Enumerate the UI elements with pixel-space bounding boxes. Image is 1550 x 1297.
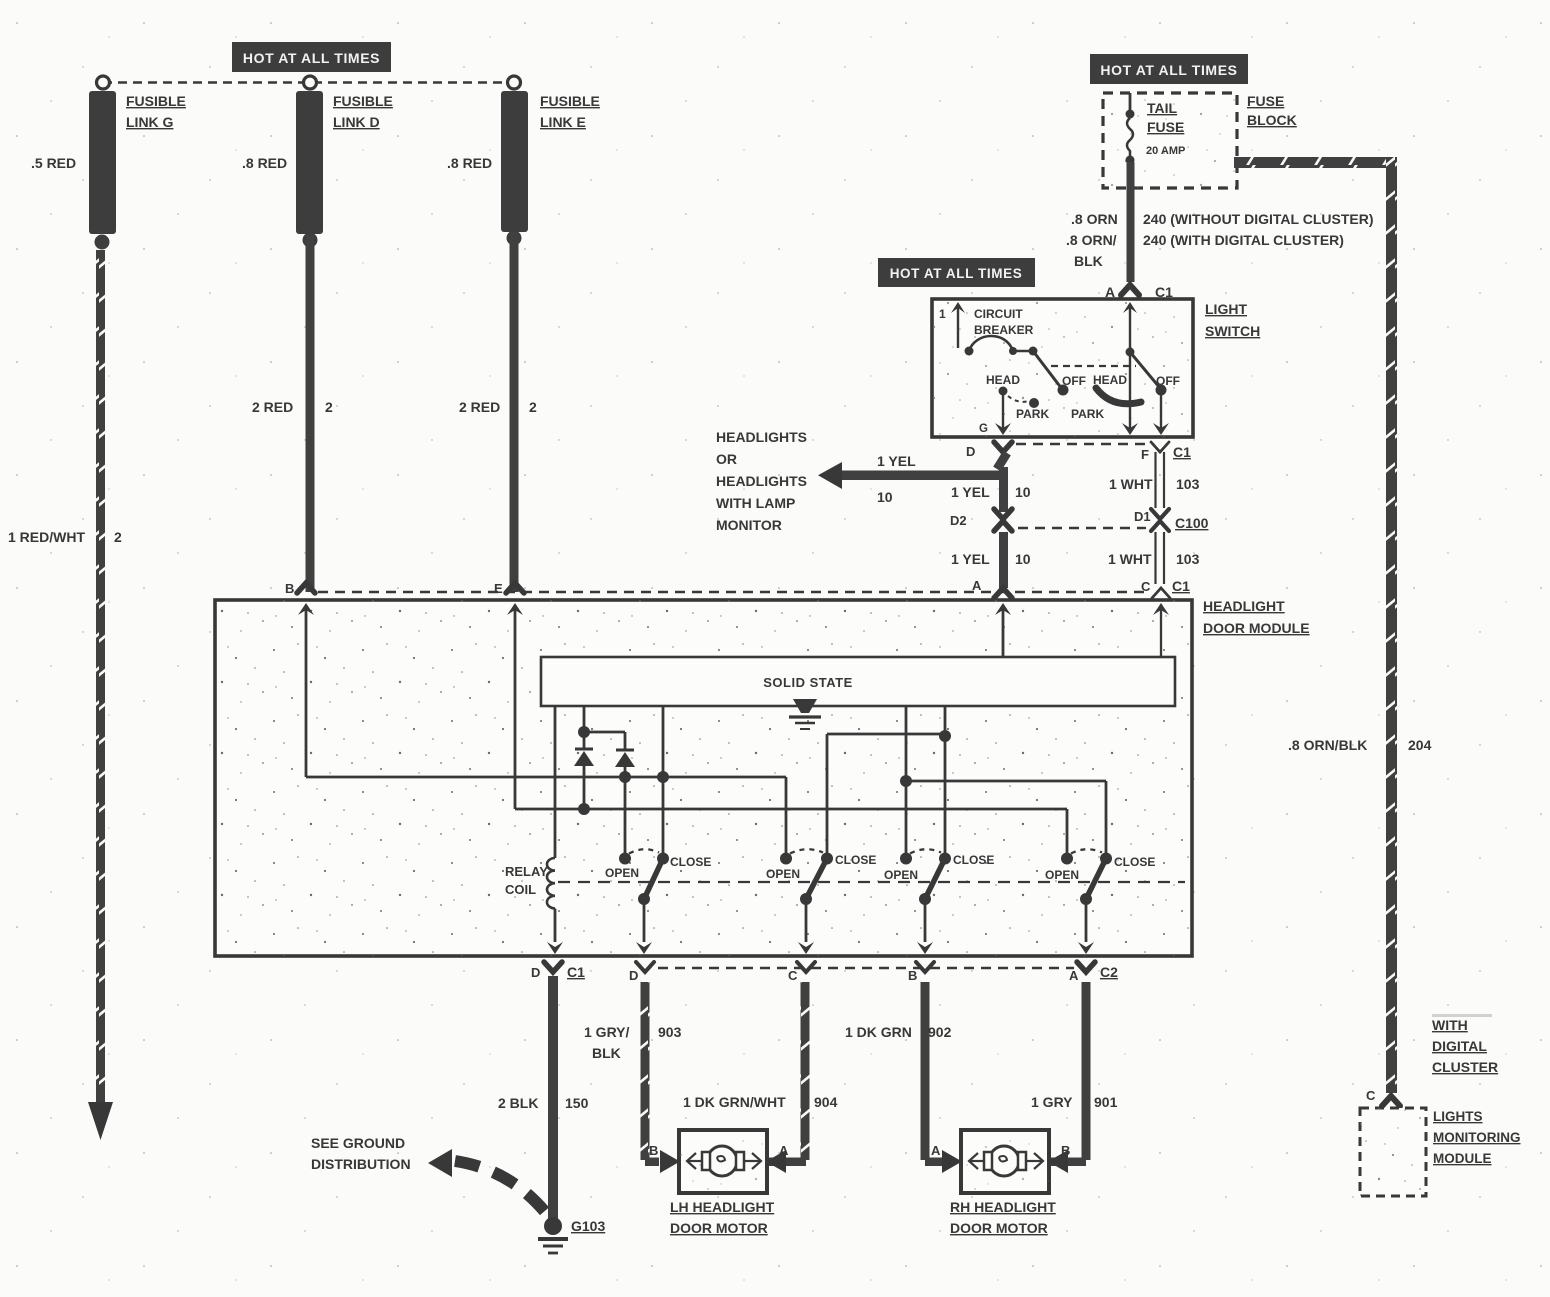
label HOT AT ALL TIMES (left)	[232, 42, 391, 72]
svg-text:HEADLIGHTS: HEADLIGHTS	[716, 473, 807, 489]
wire module C to solid state	[1153, 603, 1169, 657]
svg-text:D1: D1	[1134, 509, 1151, 524]
svg-text:HOT AT ALL TIMES: HOT AT ALL TIMES	[890, 266, 1023, 281]
switch lever swoosh HEAD-PARK	[1096, 388, 1141, 404]
label CIRCUIT BREAKER	[974, 307, 1034, 337]
wire solid state to switch3 CLOSE (with branch)	[944, 706, 947, 855]
svg-text:240 (WITHOUT DIGITAL CLUSTER): 240 (WITHOUT DIGITAL CLUSTER)	[1143, 211, 1373, 227]
svg-text:G: G	[979, 423, 988, 435]
wire bus A (B input to switch2 OPEN)	[306, 777, 786, 856]
label OPEN CLOSE (S3)	[884, 853, 994, 882]
svg-text:103: 103	[1176, 551, 1200, 567]
wire 1 DK GRN (B to RH motor A)	[921, 982, 963, 1173]
wire 1 YEL horizontal to headlights	[818, 462, 1007, 489]
wire solid state to switch1 CLOSE	[662, 706, 665, 855]
switch S4 OPEN contact	[1061, 853, 1073, 865]
connector A C1 (light switch input)	[1105, 284, 1173, 300]
label SEE GROUND DISTRIBUTION	[311, 1135, 411, 1172]
svg-text:10: 10	[1015, 551, 1031, 567]
wire module A to solid state	[995, 603, 1011, 657]
svg-text:1 WHT: 1 WHT	[1109, 476, 1153, 492]
label .8 ORN/BLK 240 (WITH DIGITAL CLUSTER)	[1066, 232, 1344, 269]
switch S3 OPEN contact	[900, 853, 912, 865]
label 1 GRY/ BLK 903	[584, 1024, 682, 1061]
svg-text:CLUSTER: CLUSTER	[1432, 1059, 1498, 1075]
connector B (module top)	[285, 581, 315, 596]
node terminal ring 2	[304, 76, 317, 89]
label 2 RED 2 (right)	[459, 399, 537, 415]
svg-text:LIGHT: LIGHT	[1205, 301, 1247, 317]
wire module E to bus B	[507, 603, 523, 809]
wire 1 WHT (F to C100) double line	[1156, 452, 1165, 508]
wire .8 ORN fuse output (down to light switch)	[1127, 162, 1135, 282]
svg-text:C100: C100	[1175, 515, 1209, 531]
svg-text:D2: D2	[950, 513, 967, 528]
LH headlight door motor	[679, 1130, 767, 1193]
diode CR2	[615, 750, 635, 775]
label .8 ORN 240 (WITHOUT DIGITAL CLUSTER)	[1071, 211, 1373, 227]
svg-text:904: 904	[814, 1094, 838, 1110]
label FUSIBLE LINK D	[333, 93, 393, 130]
wire dashed connector face D2-C100	[1018, 527, 1146, 529]
label HEADLIGHT DOOR MODULE	[1203, 598, 1310, 636]
svg-text:DIGITAL: DIGITAL	[1432, 1038, 1487, 1054]
connector D (module bottom, LH open)	[629, 962, 654, 983]
wire module B to bus A	[298, 603, 314, 777]
svg-text:OPEN: OPEN	[605, 866, 639, 880]
svg-text:BREAKER: BREAKER	[974, 323, 1034, 337]
fuse block dashed box	[1103, 93, 1237, 188]
label OPEN CLOSE (S1)	[605, 855, 711, 880]
label 1 WHT 103 (lower)	[1108, 551, 1200, 567]
label 1 DK GRN 902	[845, 1024, 952, 1040]
svg-text:1 YEL: 1 YEL	[951, 484, 990, 500]
svg-text:1 YEL: 1 YEL	[877, 453, 916, 469]
label LIGHTS MONITORING MODULE	[1433, 1109, 1521, 1166]
svg-text:A: A	[931, 1143, 941, 1158]
svg-text:103: 103	[1176, 476, 1200, 492]
svg-text:MONITORING: MONITORING	[1433, 1130, 1521, 1145]
wire dashed detent (light switch)	[1051, 365, 1136, 367]
svg-text:WITH LAMP: WITH LAMP	[716, 495, 795, 511]
ground G103	[538, 1217, 568, 1253]
svg-text:204: 204	[1408, 737, 1432, 753]
label .8 RED (right)	[447, 155, 492, 171]
lights monitoring module dashed box	[1360, 1108, 1426, 1196]
switch S2 CLOSE contact	[821, 853, 833, 865]
label 1 RED/WHT 2	[8, 529, 122, 545]
svg-text:CIRCUIT: CIRCUIT	[974, 307, 1023, 321]
label HEAD / OFF HEAD / OFF	[986, 373, 1180, 388]
wire hot feed dashed bus (top left)	[103, 81, 514, 84]
wire open3-close4 branch	[900, 775, 1106, 857]
svg-text:2 RED: 2 RED	[252, 399, 293, 415]
pin 1 light switch	[939, 302, 965, 348]
svg-text:COIL: COIL	[505, 882, 536, 897]
svg-text:RELAY: RELAY	[505, 864, 548, 879]
svg-text:D: D	[966, 444, 975, 459]
svg-text:SEE GROUND: SEE GROUND	[311, 1135, 405, 1151]
svg-text:BLK: BLK	[592, 1045, 621, 1061]
svg-text:C: C	[788, 968, 798, 983]
label FUSE BLOCK	[1247, 93, 1297, 128]
label OPEN CLOSE (S2)	[766, 853, 876, 881]
node terminal ring 1	[97, 76, 110, 89]
label PARK PARK	[1016, 407, 1104, 421]
label WITH DIGITAL CLUSTER	[1432, 1014, 1498, 1075]
svg-text:CLOSE: CLOSE	[835, 853, 876, 867]
svg-text:OR: OR	[716, 451, 737, 467]
svg-text:.8 ORN/BLK: .8 ORN/BLK	[1288, 737, 1367, 753]
connector D (light switch output)	[966, 442, 1012, 459]
svg-text:2: 2	[114, 529, 122, 545]
svg-text:LH HEADLIGHT: LH HEADLIGHT	[670, 1199, 775, 1215]
svg-text:.8 ORN/: .8 ORN/	[1066, 232, 1117, 248]
label 2 BLK 150	[498, 1095, 589, 1111]
label FUSIBLE LINK E	[540, 93, 600, 130]
svg-text:MODULE: MODULE	[1433, 1151, 1492, 1166]
svg-text:DOOR MOTOR: DOOR MOTOR	[670, 1220, 768, 1236]
svg-text:RH HEADLIGHT: RH HEADLIGHT	[950, 1199, 1056, 1215]
svg-text:HOT AT ALL TIMES: HOT AT ALL TIMES	[1100, 62, 1237, 78]
svg-text:LINK G: LINK G	[126, 114, 174, 130]
wire bus B (E input to switch4 OPEN)	[515, 809, 1067, 856]
svg-text:1 GRY/: 1 GRY/	[584, 1024, 629, 1040]
svg-text:10: 10	[877, 489, 893, 505]
connector B (module bottom, RH open)	[908, 962, 934, 983]
svg-text:C1: C1	[567, 964, 585, 980]
svg-text:20 AMP: 20 AMP	[1146, 145, 1185, 157]
label G103	[571, 1218, 605, 1234]
wire see-ground arrow dashes	[428, 1149, 553, 1222]
switch S1 OPEN contact	[619, 853, 631, 865]
svg-text:150: 150	[565, 1095, 589, 1111]
svg-text:OPEN: OPEN	[884, 868, 918, 882]
svg-text:LIGHTS: LIGHTS	[1433, 1109, 1483, 1124]
ground (solid state internal)	[789, 699, 821, 729]
wire 1 GRY/BLK (D to LH motor B)	[641, 982, 681, 1173]
node bus B / diode1 junction	[578, 803, 590, 815]
switch S3 wiper	[919, 859, 945, 906]
svg-text:G103: G103	[571, 1218, 605, 1234]
wire .8 ORN/BLK hatched (fuse to right bus)	[1234, 157, 1397, 1093]
node PARK contact (left)	[1008, 396, 1039, 408]
svg-text:LINK D: LINK D	[333, 114, 380, 130]
connector E (module top)	[494, 581, 524, 596]
label 1 DK GRN/WHT 904	[683, 1094, 838, 1110]
svg-text:10: 10	[1015, 484, 1031, 500]
switch S1 CLOSE contact	[657, 853, 669, 865]
svg-text:C: C	[1366, 1088, 1376, 1103]
svg-text:WITH: WITH	[1432, 1017, 1468, 1033]
svg-text:D: D	[531, 965, 540, 980]
svg-text:240 (WITH DIGITAL CLUSTER): 240 (WITH DIGITAL CLUSTER)	[1143, 232, 1344, 248]
svg-text:.8 RED: .8 RED	[447, 155, 492, 171]
node terminal ring 3	[508, 76, 521, 89]
svg-text:FUSIBLE: FUSIBLE	[540, 93, 600, 109]
connector D2	[950, 509, 1012, 531]
svg-text:2 RED: 2 RED	[459, 399, 500, 415]
switch S3 CLOSE contact	[939, 853, 951, 865]
svg-text:HEADLIGHT: HEADLIGHT	[1203, 598, 1285, 614]
circuit breaker	[965, 336, 1063, 389]
label A (RH motor left pin)	[931, 1143, 941, 1158]
label B (LH motor left pin)	[649, 1143, 658, 1158]
svg-text:DOOR MODULE: DOOR MODULE	[1203, 620, 1310, 636]
svg-text:2 BLK: 2 BLK	[498, 1095, 538, 1111]
light switch box	[932, 299, 1193, 437]
svg-text:A: A	[1069, 968, 1079, 983]
svg-text:B: B	[649, 1143, 658, 1158]
svg-text:1 RED/WHT: 1 RED/WHT	[8, 529, 85, 545]
svg-text:PARK: PARK	[1016, 407, 1049, 421]
connector F C1	[1141, 442, 1191, 462]
wire 1 RED/WHT hatched vertical	[88, 250, 113, 1140]
switch S4 wiper	[1080, 859, 1106, 906]
svg-text:B: B	[908, 968, 917, 983]
connector C (lights monitoring module)	[1366, 1088, 1400, 1106]
svg-text:BLK: BLK	[1074, 253, 1103, 269]
svg-text:BLOCK: BLOCK	[1247, 112, 1297, 128]
node HEAD contact + wire to G	[995, 387, 1011, 436]
svg-text:E: E	[494, 581, 503, 596]
relay coil	[547, 858, 563, 954]
svg-text:B: B	[285, 581, 294, 596]
label 1 GRY 901	[1031, 1094, 1118, 1110]
wire solid state to switch3 OPEN (with branch)	[905, 706, 908, 856]
switch S4 CLOSE contact	[1100, 853, 1112, 865]
label RH HEADLIGHT DOOR MOTOR	[950, 1199, 1056, 1236]
svg-text:.8 ORN: .8 ORN	[1071, 211, 1118, 227]
node bus A / diode2 junction	[619, 771, 631, 855]
connector C C1 (module input)	[1141, 578, 1190, 598]
svg-text:A: A	[779, 1143, 789, 1158]
wire diode branch to diode 2	[586, 732, 625, 750]
node OFF contact (left wiper)	[1058, 385, 1069, 396]
wire 1 WHT (C100 to module C) double line	[1156, 532, 1165, 584]
svg-text:HEADLIGHTS: HEADLIGHTS	[716, 429, 807, 445]
pin G label	[979, 423, 988, 435]
svg-text:FUSE: FUSE	[1247, 93, 1284, 109]
wire close2-close3 branch	[827, 730, 951, 856]
switch S3 dashed throw arc	[910, 849, 941, 853]
switch wiper right (OFF position)	[1130, 352, 1169, 435]
label A (LH motor right pin)	[779, 1143, 789, 1158]
svg-text:MONITOR: MONITOR	[716, 517, 782, 533]
svg-text:LINK E: LINK E	[540, 114, 586, 130]
svg-text:1: 1	[939, 307, 946, 321]
tail fuse 20 amp	[1126, 93, 1135, 165]
svg-text:C1: C1	[1172, 578, 1190, 594]
svg-text:F: F	[1141, 447, 1149, 462]
wire 2 RED (from link D to module B)	[306, 234, 315, 592]
svg-text:DISTRIBUTION: DISTRIBUTION	[311, 1156, 411, 1172]
svg-text:CLOSE: CLOSE	[1114, 855, 1155, 869]
switch S1 dashed throw arc	[629, 849, 659, 853]
wire dashed connector face (module top)	[318, 591, 1148, 594]
svg-text:SOLID STATE: SOLID STATE	[763, 675, 853, 690]
wire dashed connector face (module bottom)	[658, 967, 1074, 969]
connector A C2 (module bottom, RH close)	[1069, 962, 1118, 983]
label 1 YEL 10 (lower)	[951, 551, 1031, 567]
svg-text:OPEN: OPEN	[766, 867, 800, 881]
svg-text:1 DK GRN/WHT: 1 DK GRN/WHT	[683, 1094, 786, 1110]
connector C (module bottom, LH close)	[788, 962, 815, 983]
label FUSIBLE LINK G	[126, 93, 186, 130]
svg-text:HEAD: HEAD	[986, 373, 1020, 387]
svg-text:1 DK GRN: 1 DK GRN	[845, 1024, 912, 1040]
fusible link G	[89, 91, 116, 250]
solid state box	[541, 657, 1175, 706]
svg-text:FUSE: FUSE	[1147, 119, 1184, 135]
switch S1 wiper	[638, 859, 663, 906]
switch S4 dashed throw arc	[1071, 849, 1102, 853]
svg-text:1 GRY: 1 GRY	[1031, 1094, 1073, 1110]
label HOT AT ALL TIMES (fuse block)	[1090, 54, 1248, 84]
wire 2 RED (from link E to module E)	[510, 232, 519, 592]
svg-text:903: 903	[658, 1024, 682, 1040]
headlight door module box	[215, 600, 1192, 956]
wire switch S2 to module pin	[798, 904, 814, 954]
svg-text:2: 2	[529, 399, 537, 415]
label 1 WHT 103 (upper)	[1109, 476, 1200, 492]
label RELAY COIL	[505, 864, 548, 897]
svg-text:PARK: PARK	[1071, 407, 1104, 421]
svg-text:902: 902	[928, 1024, 952, 1040]
svg-text:CLOSE: CLOSE	[670, 855, 711, 869]
connector D1 C100	[1134, 509, 1209, 531]
label LH HEADLIGHT DOOR MOTOR	[670, 1199, 775, 1236]
label TAIL FUSE 20 AMP	[1146, 100, 1185, 157]
label 1 YEL 10 (horizontal wire)	[877, 453, 916, 505]
switch S2 OPEN contact	[780, 853, 792, 865]
svg-text:CLOSE: CLOSE	[953, 853, 994, 867]
wire switch S3 to module pin	[917, 904, 933, 954]
wire solid state to relay coil	[554, 706, 557, 858]
wire dashed mechanical linkage	[558, 881, 1185, 883]
switch S2 dashed throw arc	[790, 849, 823, 853]
svg-text:.8 RED: .8 RED	[242, 155, 287, 171]
svg-text:DOOR MOTOR: DOOR MOTOR	[950, 1220, 1048, 1236]
fusible link E	[501, 91, 528, 246]
connector A (module input)	[972, 578, 1012, 598]
svg-text:B: B	[1061, 1143, 1070, 1158]
connector D C1 (module bottom, ground)	[531, 962, 585, 980]
svg-text:.5 RED: .5 RED	[31, 155, 76, 171]
label HEADLIGHTS OR HEADLIGHTS WITH LAMP MONITOR	[716, 429, 807, 533]
node bus A / switch1 close junction	[657, 771, 669, 783]
label OPEN CLOSE (S4)	[1045, 855, 1155, 882]
wire 1 GRY (A to RH motor B)	[1048, 982, 1091, 1173]
wire 1 YEL (D down to D2)	[997, 453, 1008, 512]
wire switch S1 to module pin	[636, 904, 652, 954]
svg-text:1 WHT: 1 WHT	[1108, 551, 1152, 567]
svg-text:HOT AT ALL TIMES: HOT AT ALL TIMES	[243, 50, 380, 66]
svg-text:901: 901	[1094, 1094, 1118, 1110]
wire 1 DK GRN/WHT (C to LH motor A)	[766, 982, 810, 1173]
svg-text:C2: C2	[1100, 964, 1118, 980]
svg-text:1 YEL: 1 YEL	[951, 551, 990, 567]
svg-text:HEAD: HEAD	[1093, 373, 1127, 387]
wire 2 BLK to ground	[548, 976, 558, 1220]
svg-text:C1: C1	[1173, 444, 1191, 460]
svg-text:D: D	[629, 968, 638, 983]
label B (RH motor right pin)	[1061, 1143, 1070, 1158]
fusible link D	[296, 91, 323, 248]
wire switch S4 to module pin	[1078, 904, 1094, 954]
wire 1 YEL (D2 down to module A)	[999, 532, 1008, 588]
svg-text:FUSIBLE: FUSIBLE	[333, 93, 393, 109]
label .8 ORN/BLK 204	[1288, 737, 1432, 753]
RH headlight door motor	[961, 1130, 1049, 1193]
svg-text:TAIL: TAIL	[1147, 100, 1178, 116]
svg-text:2: 2	[325, 399, 333, 415]
svg-text:OPEN: OPEN	[1045, 868, 1079, 882]
diode CR1	[574, 749, 594, 806]
label 1 YEL 10 (upper)	[951, 484, 1031, 500]
label HOT AT ALL TIMES (light switch)	[878, 258, 1035, 287]
wire dashed connector face D-F	[1016, 443, 1146, 445]
svg-text:FUSIBLE: FUSIBLE	[126, 93, 186, 109]
label LIGHT SWITCH	[1205, 301, 1260, 339]
label .8 RED (middle)	[242, 155, 287, 171]
wire solid state to diode 1	[578, 706, 590, 749]
wire light switch A input (interior)	[1122, 302, 1138, 435]
label .5 RED	[31, 155, 76, 171]
label 2 RED 2 (middle)	[252, 399, 333, 415]
svg-text:SWITCH: SWITCH	[1205, 323, 1260, 339]
switch S2 wiper	[800, 859, 827, 906]
